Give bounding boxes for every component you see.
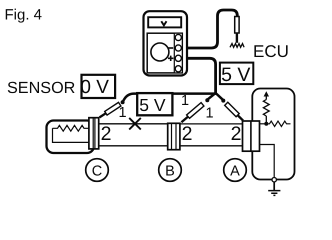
value box 5V (at B): [137, 93, 172, 115]
meter dial: [151, 43, 169, 61]
connector ring C: [86, 159, 109, 182]
svg-text:A: A: [230, 163, 240, 179]
value box 0V: [82, 75, 116, 98]
meter panel: [147, 33, 182, 73]
svg-text:2: 2: [231, 123, 242, 145]
wire A1 into ECU: [260, 123, 267, 125]
chassis ground hatch: [230, 44, 244, 48]
probe P1 body (ground probe): [235, 17, 239, 34]
sensor internal resistor: [53, 125, 90, 131]
node junction dot: [264, 122, 268, 126]
open-circuit X mark: [129, 118, 141, 130]
svg-text:0 V: 0 V: [80, 77, 109, 98]
ECU lead resistor to node: [265, 116, 267, 124]
connector B: [168, 123, 180, 149]
meter display: [148, 17, 181, 27]
node on ECU case: [272, 178, 276, 182]
jack 4: [175, 66, 181, 72]
value box 5V (at ECU): [220, 63, 253, 85]
jack 2: [175, 45, 181, 51]
probe P2 (at connector C): [100, 100, 125, 117]
meter display V symbol: [161, 21, 166, 25]
svg-text:B: B: [165, 163, 175, 179]
svg-text:C: C: [92, 163, 102, 179]
svg-text:5 V: 5 V: [221, 64, 250, 86]
meter jack strip: [174, 33, 182, 73]
svg-text:2: 2: [101, 123, 112, 145]
svg-text:5 V: 5 V: [139, 95, 166, 115]
probe P4 (at connector A): [221, 99, 243, 121]
connector ring A: [224, 159, 247, 182]
bus wire 1 (top) B to A: [180, 123, 244, 125]
probe P1 tip: [236, 33, 238, 43]
sensor internal return wire: [53, 128, 90, 142]
wire: junction to probe at A: [216, 93, 224, 100]
wire A2 to ground: [260, 145, 275, 178]
svg-text:SENSOR: SENSOR: [7, 79, 75, 97]
bus wire 2 (bottom) C to B: [99, 145, 168, 147]
sensor body: [47, 121, 95, 154]
ground stem: [273, 182, 275, 191]
bus wire 2 (bottom) B to A: [180, 145, 244, 147]
ECU 5V supply arrow: [264, 91, 269, 96]
jack 1: [175, 34, 181, 40]
svg-text:Fig. 4: Fig. 4: [5, 6, 43, 23]
ECU input resistor (horizontal): [266, 121, 290, 126]
svg-text:1: 1: [205, 106, 213, 122]
ECU box: [252, 89, 294, 180]
plus sign: [168, 56, 173, 61]
minus sign: [168, 47, 173, 49]
ground symbol: [268, 191, 280, 196]
bus wire 1 (top) C to B: [99, 123, 168, 125]
ECU supply lead: [265, 96, 267, 100]
svg-text:2: 2: [182, 123, 193, 145]
connector A: [243, 121, 260, 151]
svg-text:ECU: ECU: [253, 42, 289, 61]
wire: meter minus lead to ground probe: [181, 10, 237, 48]
wire: junction to sensor probe (horizontal): [123, 94, 216, 102]
jack 3: [175, 55, 181, 61]
wire: meter plus lead down to probe junction: [181, 58, 216, 93]
probe P3 (at connector B): [181, 98, 209, 122]
svg-text:1: 1: [181, 93, 189, 109]
wire: junction to probe at B: [207, 93, 215, 100]
multimeter body: [144, 11, 188, 75]
connector C: [89, 118, 99, 149]
svg-text:1: 1: [118, 105, 126, 121]
ECU pull-up resistor (vertical): [263, 100, 269, 117]
connector ring B: [159, 159, 182, 182]
